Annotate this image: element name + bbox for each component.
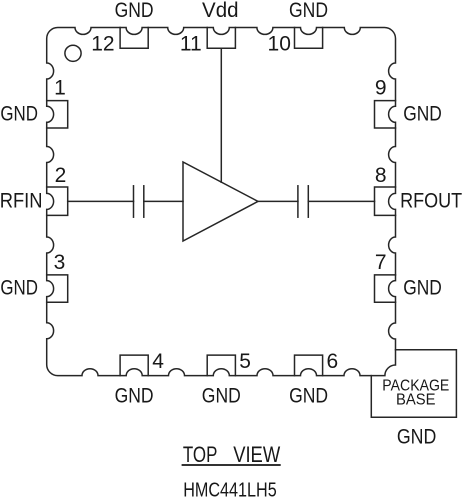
package base paddle box (371, 350, 456, 417)
svg-text:10: 10 (268, 32, 291, 55)
svg-text:RFIN: RFIN (0, 189, 42, 212)
capacitor C2 (297, 186, 299, 217)
svg-text:4: 4 (152, 350, 164, 373)
pin 10 pad (295, 28, 323, 49)
pin 3 pad (47, 275, 68, 302)
pin 8 pad (375, 187, 396, 215)
wire C2 to RFOUT (308, 200, 374, 202)
svg-text:8: 8 (375, 164, 387, 187)
svg-text:Vdd: Vdd (202, 0, 239, 22)
pin 6 pad (295, 355, 323, 376)
svg-text:2: 2 (55, 164, 67, 187)
title TOP VIEW (183, 442, 280, 467)
svg-text:GND: GND (289, 0, 328, 22)
svg-text:3: 3 (54, 251, 66, 274)
svg-text:TOP: TOP (183, 442, 218, 467)
title underline (183, 464, 280, 466)
svg-text:GND: GND (202, 385, 241, 408)
svg-text:9: 9 (375, 77, 387, 100)
pin 2 pad (47, 187, 68, 215)
capacitor C1 (133, 186, 135, 217)
svg-text:GND: GND (115, 385, 154, 408)
pin 7 pad (375, 275, 396, 302)
svg-text:BASE: BASE (396, 391, 436, 408)
svg-text:GND: GND (0, 277, 38, 300)
svg-text:1: 1 (54, 77, 66, 100)
svg-text:GND: GND (403, 277, 442, 300)
pin 4 pad (120, 355, 148, 376)
svg-text:GND: GND (115, 0, 154, 22)
svg-text:GND: GND (289, 385, 328, 408)
svg-text:6: 6 (327, 350, 339, 373)
svg-text:7: 7 (375, 251, 387, 274)
wire amp output to C2 (258, 200, 298, 202)
op-amp triangle (183, 162, 258, 241)
svg-text:GND: GND (397, 425, 437, 448)
svg-text:VIEW: VIEW (233, 442, 280, 467)
svg-text:11: 11 (180, 32, 202, 55)
svg-text:12: 12 (91, 32, 114, 55)
pin 9 pad (375, 101, 396, 128)
wire RFIN to C1 (68, 200, 134, 202)
pin 11 pad (207, 28, 235, 49)
package outline U1 body (47, 28, 396, 376)
svg-text:HMC441LH5: HMC441LH5 (183, 480, 277, 500)
pin 1 indicator circle (65, 45, 81, 61)
pin 1 pad (47, 101, 68, 128)
pin 5 pad (207, 355, 235, 376)
wire Vdd from pin 11 (220, 48, 222, 182)
wire C1 to amp input (144, 200, 183, 202)
svg-text:RFOUT: RFOUT (400, 189, 462, 212)
svg-text:GND: GND (0, 102, 38, 125)
svg-text:GND: GND (403, 102, 442, 125)
svg-text:5: 5 (239, 350, 251, 373)
pin 12 pad (120, 28, 148, 49)
